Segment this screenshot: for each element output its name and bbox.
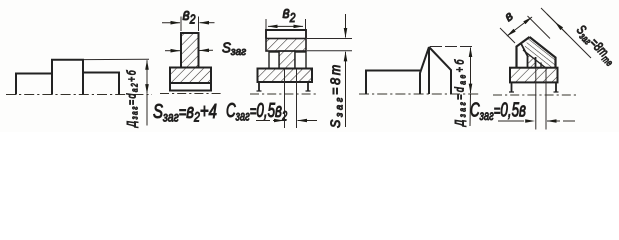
cone slant fig4 <box>429 47 451 94</box>
apex extension line fig4 <box>430 46 474 48</box>
web hatched fig5 <box>528 54 536 68</box>
label Dzag = da2 + b (rotated) <box>125 69 139 128</box>
extension line from block top <box>84 58 149 60</box>
web left edge fig5 <box>521 44 528 68</box>
bottom extension lines fig3 <box>284 69 286 128</box>
bottom dimension Czag fig3 <box>256 120 284 122</box>
web right edge fig5 <box>535 57 537 68</box>
axis centerline fig5 <box>493 94 576 96</box>
bottom extension lines fig5 <box>535 68 537 130</box>
rim band top edge fig5 <box>530 37 556 68</box>
axis centerline fig1 <box>6 94 152 96</box>
leader below axis for label <box>146 95 148 126</box>
arrowhead on Szag line fig5 <box>555 22 563 30</box>
label Szag=8m rotated <box>328 62 346 128</box>
shaft rectangle fig4 <box>366 71 420 95</box>
bottom dimension Czag fig5 <box>498 120 535 122</box>
lower band fig2 <box>170 83 211 91</box>
extension lines fig3 top <box>265 19 267 30</box>
left notch fig3 <box>269 52 279 69</box>
extension lines fig2 top <box>180 17 182 32</box>
Szag=8mte dimension line fig5 <box>547 14 591 58</box>
hatched flange fig2 <box>170 68 211 84</box>
Szag arrows fig2 <box>165 50 180 52</box>
extension line L3 fig5 <box>541 8 567 34</box>
svg-text:Sзаг=в2+4: Sзаг=в2+4 <box>153 100 217 125</box>
axis centerline fig2 <box>160 93 222 95</box>
b dimension line fig5 (along cone) <box>507 17 532 36</box>
center ridge fig4 <box>428 47 430 94</box>
axis centerline fig4 <box>359 93 481 95</box>
dimension line Dzag fig4 <box>470 48 472 94</box>
center block outline <box>52 60 83 95</box>
svg-text:Sзаг=8m: Sзаг=8m <box>328 62 346 128</box>
hatched flange fig5 <box>510 68 558 83</box>
b2 dimension line fig3 (arrows inside pointing out) <box>268 25 303 27</box>
notch right edge fig5 <box>540 63 542 68</box>
skirt fig5 <box>512 82 557 92</box>
hatched rim band fig3 <box>266 39 306 52</box>
skirt fig3 <box>259 82 308 91</box>
axis centerline fig3 <box>250 93 318 95</box>
dimension line D1 vertical with arrows <box>146 60 148 93</box>
svg-text:Сзаг=0,5в2: Сзаг=0,5в2 <box>226 99 288 124</box>
right notch fig3 <box>295 52 306 69</box>
svg-text:Сзаг=0,5в: Сзаг=0,5в <box>470 99 526 124</box>
hatched rim column fig2 <box>181 33 199 68</box>
rim band hatch fig5 <box>523 37 556 68</box>
Szag=8m dimension line fig3 <box>345 14 347 38</box>
left rim face fig5 <box>517 37 530 68</box>
label Dzag=dae+b rotated <box>453 57 467 127</box>
leader below axis fig4 <box>469 94 472 126</box>
label Szag=8mte rotated 45 <box>573 22 619 68</box>
web hatched fig3 <box>279 51 295 69</box>
right extension lines fig3 (rim thickness) <box>307 38 352 40</box>
rim band bottom edge fig5 <box>523 50 546 68</box>
left step outline <box>16 74 52 95</box>
b2 dimension line fig2 (arrows outside) <box>162 22 180 24</box>
extension line L1 fig5 <box>500 28 515 43</box>
hatched flange fig3 <box>258 69 313 83</box>
head left face fig4 <box>420 47 429 94</box>
extension line L2 fig5 <box>528 16 551 39</box>
top rim box fig3 <box>266 30 306 39</box>
right step outline <box>83 73 119 95</box>
